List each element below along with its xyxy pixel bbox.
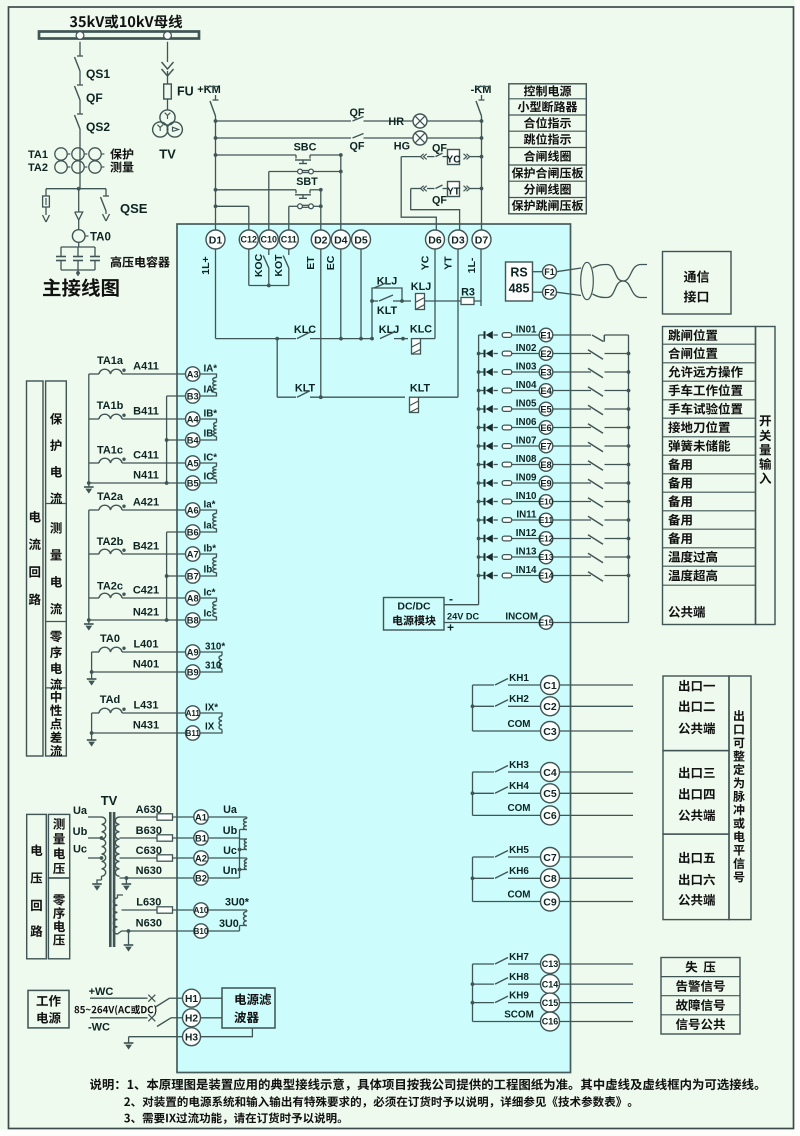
svg-text:Ub: Ub: [73, 826, 88, 838]
svg-text:TA0: TA0: [90, 232, 111, 244]
svg-text:E4: E4: [540, 386, 552, 396]
svg-text:3U0*: 3U0*: [225, 897, 250, 909]
svg-text:C5: C5: [543, 788, 557, 800]
svg-text:KH8: KH8: [509, 972, 529, 983]
svg-text:E9: E9: [540, 478, 551, 488]
svg-text:E3: E3: [540, 367, 551, 377]
svg-text:YC: YC: [420, 255, 432, 270]
svg-text:A5: A5: [187, 458, 199, 468]
svg-text:IX: IX: [205, 722, 215, 733]
svg-text:IN13: IN13: [516, 547, 537, 558]
svg-text:F2: F2: [544, 287, 555, 297]
svg-text:E2: E2: [540, 349, 551, 359]
svg-text:H2: H2: [185, 1014, 198, 1025]
svg-text:TA1c: TA1c: [97, 445, 123, 457]
svg-text:QF: QF: [86, 91, 103, 105]
svg-text:DC/DC: DC/DC: [397, 601, 431, 613]
svg-text:D5: D5: [354, 234, 368, 246]
svg-text:YT: YT: [447, 187, 460, 198]
svg-text:E14: E14: [539, 572, 554, 581]
svg-text:N411: N411: [133, 470, 159, 482]
svg-text:QF: QF: [350, 141, 365, 153]
svg-text:IC*: IC*: [204, 453, 218, 464]
svg-text:B6: B6: [187, 527, 199, 537]
svg-text:YC: YC: [447, 155, 461, 166]
svg-text:L431: L431: [133, 700, 158, 712]
svg-text:+WC: +WC: [89, 986, 114, 998]
svg-text:SCOM: SCOM: [504, 1009, 534, 1020]
svg-text:IN09: IN09: [516, 473, 537, 484]
svg-text:IC: IC: [204, 472, 214, 483]
svg-text:E8: E8: [540, 460, 551, 470]
svg-text:N630: N630: [136, 918, 162, 930]
svg-text:Ic: Ic: [204, 609, 213, 620]
svg-text:TA1: TA1: [28, 149, 48, 161]
svg-text:Ub: Ub: [223, 825, 238, 837]
svg-text:E13: E13: [539, 553, 554, 562]
svg-text:B9: B9: [187, 667, 199, 677]
svg-text:HG: HG: [394, 141, 410, 153]
svg-text:B11: B11: [186, 729, 201, 738]
svg-text:Un: Un: [223, 865, 237, 877]
svg-text:C7: C7: [543, 852, 557, 864]
svg-text:C630: C630: [136, 845, 162, 857]
svg-text:A1: A1: [195, 812, 207, 822]
svg-text:A411: A411: [133, 361, 159, 373]
svg-text:C14: C14: [542, 979, 559, 989]
svg-text:D1: D1: [209, 234, 223, 246]
svg-text:QS1: QS1: [86, 67, 110, 81]
svg-text:C411: C411: [133, 450, 159, 462]
svg-text:1L+: 1L+: [200, 256, 212, 274]
svg-text:24V DC: 24V DC: [447, 612, 480, 622]
svg-text:N431: N431: [133, 720, 159, 732]
svg-text:TA0: TA0: [100, 633, 120, 645]
svg-text:KLT: KLT: [377, 305, 398, 317]
svg-text:E11: E11: [539, 516, 554, 525]
svg-text:Ib: Ib: [204, 565, 213, 576]
svg-text:R3: R3: [461, 287, 475, 299]
svg-text:IN02: IN02: [516, 343, 537, 354]
svg-text:-KM: -KM: [471, 84, 492, 96]
svg-text:D6: D6: [428, 234, 442, 246]
svg-text:-WC: -WC: [88, 1022, 110, 1034]
svg-text:C10: C10: [261, 235, 278, 245]
svg-text:D4: D4: [334, 234, 348, 246]
svg-text:TV: TV: [159, 147, 176, 162]
svg-text:COM: COM: [507, 719, 530, 730]
svg-text:B411: B411: [133, 406, 159, 418]
svg-text:IN14: IN14: [516, 565, 537, 576]
svg-text:C11: C11: [281, 235, 297, 245]
svg-text:KH5: KH5: [509, 845, 529, 856]
svg-text:E15: E15: [539, 619, 554, 628]
svg-text:Ua: Ua: [73, 805, 88, 817]
svg-text:IN08: IN08: [516, 454, 537, 465]
svg-text:E12: E12: [539, 535, 554, 544]
svg-text:B421: B421: [133, 541, 159, 553]
svg-text:KH9: KH9: [509, 990, 529, 1001]
svg-text:E7: E7: [540, 441, 551, 451]
svg-text:QF: QF: [432, 143, 447, 155]
svg-text:1L-: 1L-: [466, 257, 478, 273]
svg-text:A4: A4: [187, 414, 200, 424]
svg-text:N401: N401: [133, 659, 159, 671]
svg-text:IN12: IN12: [516, 528, 537, 539]
svg-text:+: +: [447, 621, 454, 635]
svg-text:B4: B4: [187, 435, 200, 445]
svg-text:A9: A9: [187, 647, 199, 657]
svg-text:E10: E10: [539, 498, 554, 507]
svg-text:KLJ: KLJ: [411, 281, 431, 293]
svg-text:C9: C9: [543, 896, 557, 908]
svg-text:KH3: KH3: [509, 760, 529, 771]
svg-text:IN03: IN03: [516, 362, 537, 373]
svg-text:Uc: Uc: [73, 844, 87, 856]
svg-text:C12: C12: [241, 235, 258, 245]
svg-text:KH7: KH7: [509, 952, 529, 963]
svg-text:C4: C4: [543, 767, 557, 779]
svg-text:Ic*: Ic*: [204, 588, 216, 599]
svg-text:C8: C8: [543, 873, 557, 885]
svg-text:IN06: IN06: [516, 417, 537, 428]
svg-text:YT: YT: [443, 256, 455, 270]
svg-text:KH2: KH2: [509, 694, 529, 705]
svg-text:TA2a: TA2a: [97, 491, 124, 503]
svg-text:TA2c: TA2c: [97, 581, 123, 593]
svg-text:L630: L630: [136, 897, 161, 909]
svg-text:HR: HR: [388, 116, 404, 128]
svg-text:D2: D2: [314, 234, 328, 246]
svg-text:QF: QF: [432, 195, 447, 207]
svg-text:A10: A10: [194, 906, 209, 915]
svg-text:TA1a: TA1a: [97, 355, 124, 367]
svg-text:A11: A11: [186, 709, 201, 718]
svg-text:SBT: SBT: [296, 176, 318, 188]
svg-text:A421: A421: [133, 497, 159, 509]
svg-text:A3: A3: [187, 369, 199, 379]
svg-text:KH6: KH6: [509, 866, 529, 877]
svg-text:N421: N421: [133, 607, 159, 619]
svg-text:B10: B10: [194, 927, 209, 936]
svg-text:C6: C6: [543, 810, 557, 822]
svg-text:ET: ET: [305, 256, 317, 270]
svg-text:B1: B1: [195, 833, 207, 843]
svg-text:C1: C1: [543, 680, 557, 692]
svg-text:SBC: SBC: [294, 142, 317, 154]
svg-text:F1: F1: [544, 267, 555, 277]
svg-text:KLT: KLT: [410, 383, 431, 395]
svg-text:C421: C421: [133, 585, 159, 597]
svg-text:310*: 310*: [205, 642, 225, 653]
svg-text:TAd: TAd: [100, 694, 121, 706]
svg-text:A630: A630: [136, 804, 162, 816]
svg-text:TA2: TA2: [28, 162, 48, 174]
svg-text:IN01: IN01: [516, 325, 537, 336]
svg-text:B3: B3: [187, 391, 199, 401]
svg-text:Ib*: Ib*: [204, 544, 217, 555]
svg-text:KH1: KH1: [509, 673, 529, 684]
svg-text:B8: B8: [187, 615, 199, 625]
svg-text:B630: B630: [136, 825, 162, 837]
svg-text:TV: TV: [101, 793, 118, 808]
svg-text:RS: RS: [510, 266, 527, 280]
svg-text:QS2: QS2: [86, 120, 110, 134]
svg-text:IN10: IN10: [516, 491, 537, 502]
svg-text:H3: H3: [185, 1032, 198, 1043]
svg-text:A8: A8: [187, 593, 199, 603]
svg-text:D7: D7: [475, 234, 489, 246]
svg-text:IN11: IN11: [516, 510, 537, 521]
svg-text:L401: L401: [133, 639, 158, 651]
svg-text:QF: QF: [350, 107, 365, 119]
svg-text:Ia*: Ia*: [204, 500, 216, 511]
svg-text:TA1b: TA1b: [97, 400, 124, 412]
svg-text:IA: IA: [204, 385, 214, 396]
svg-text:A7: A7: [187, 549, 199, 559]
svg-text:COM: COM: [507, 803, 530, 814]
svg-text:A6: A6: [187, 505, 199, 515]
svg-text:+KM: +KM: [197, 84, 221, 96]
svg-text:INCOM: INCOM: [505, 612, 538, 623]
svg-text:IB*: IB*: [204, 409, 218, 420]
svg-text:Ua: Ua: [223, 804, 238, 816]
svg-text:C3: C3: [543, 726, 557, 738]
svg-text:N630: N630: [136, 865, 162, 877]
svg-text:IA*: IA*: [204, 364, 218, 375]
svg-text:E5: E5: [540, 404, 551, 414]
svg-text:C16: C16: [542, 1017, 559, 1027]
svg-text:IN07: IN07: [516, 436, 537, 447]
svg-text:D3: D3: [451, 234, 465, 246]
svg-text:C2: C2: [543, 701, 557, 713]
svg-text:KH4: KH4: [509, 781, 529, 792]
svg-text:-: -: [449, 592, 453, 606]
svg-text:IX*: IX*: [205, 703, 218, 714]
svg-text:H1: H1: [185, 994, 198, 1005]
svg-text:IN04: IN04: [516, 380, 537, 391]
svg-text:3U0: 3U0: [219, 918, 239, 930]
svg-text:485: 485: [509, 282, 530, 296]
svg-text:C13: C13: [542, 959, 559, 969]
svg-text:B2: B2: [195, 873, 207, 883]
svg-text:310: 310: [205, 661, 222, 672]
svg-text:Ia: Ia: [204, 521, 213, 532]
svg-text:B7: B7: [187, 571, 199, 581]
svg-text:FU: FU: [177, 85, 194, 99]
svg-text:COM: COM: [507, 889, 530, 900]
svg-text:E1: E1: [540, 330, 551, 340]
svg-text:E6: E6: [540, 423, 551, 433]
svg-text:C15: C15: [542, 998, 559, 1008]
svg-text:B5: B5: [187, 478, 199, 488]
svg-text:EC: EC: [325, 255, 337, 270]
svg-text:IB: IB: [204, 429, 214, 440]
svg-text:TA2b: TA2b: [97, 536, 124, 548]
svg-text:Uc: Uc: [223, 845, 237, 857]
svg-text:IN05: IN05: [516, 399, 537, 410]
svg-text:KLC: KLC: [410, 324, 432, 336]
svg-text:A2: A2: [195, 853, 207, 863]
svg-text:QSE: QSE: [120, 201, 148, 216]
